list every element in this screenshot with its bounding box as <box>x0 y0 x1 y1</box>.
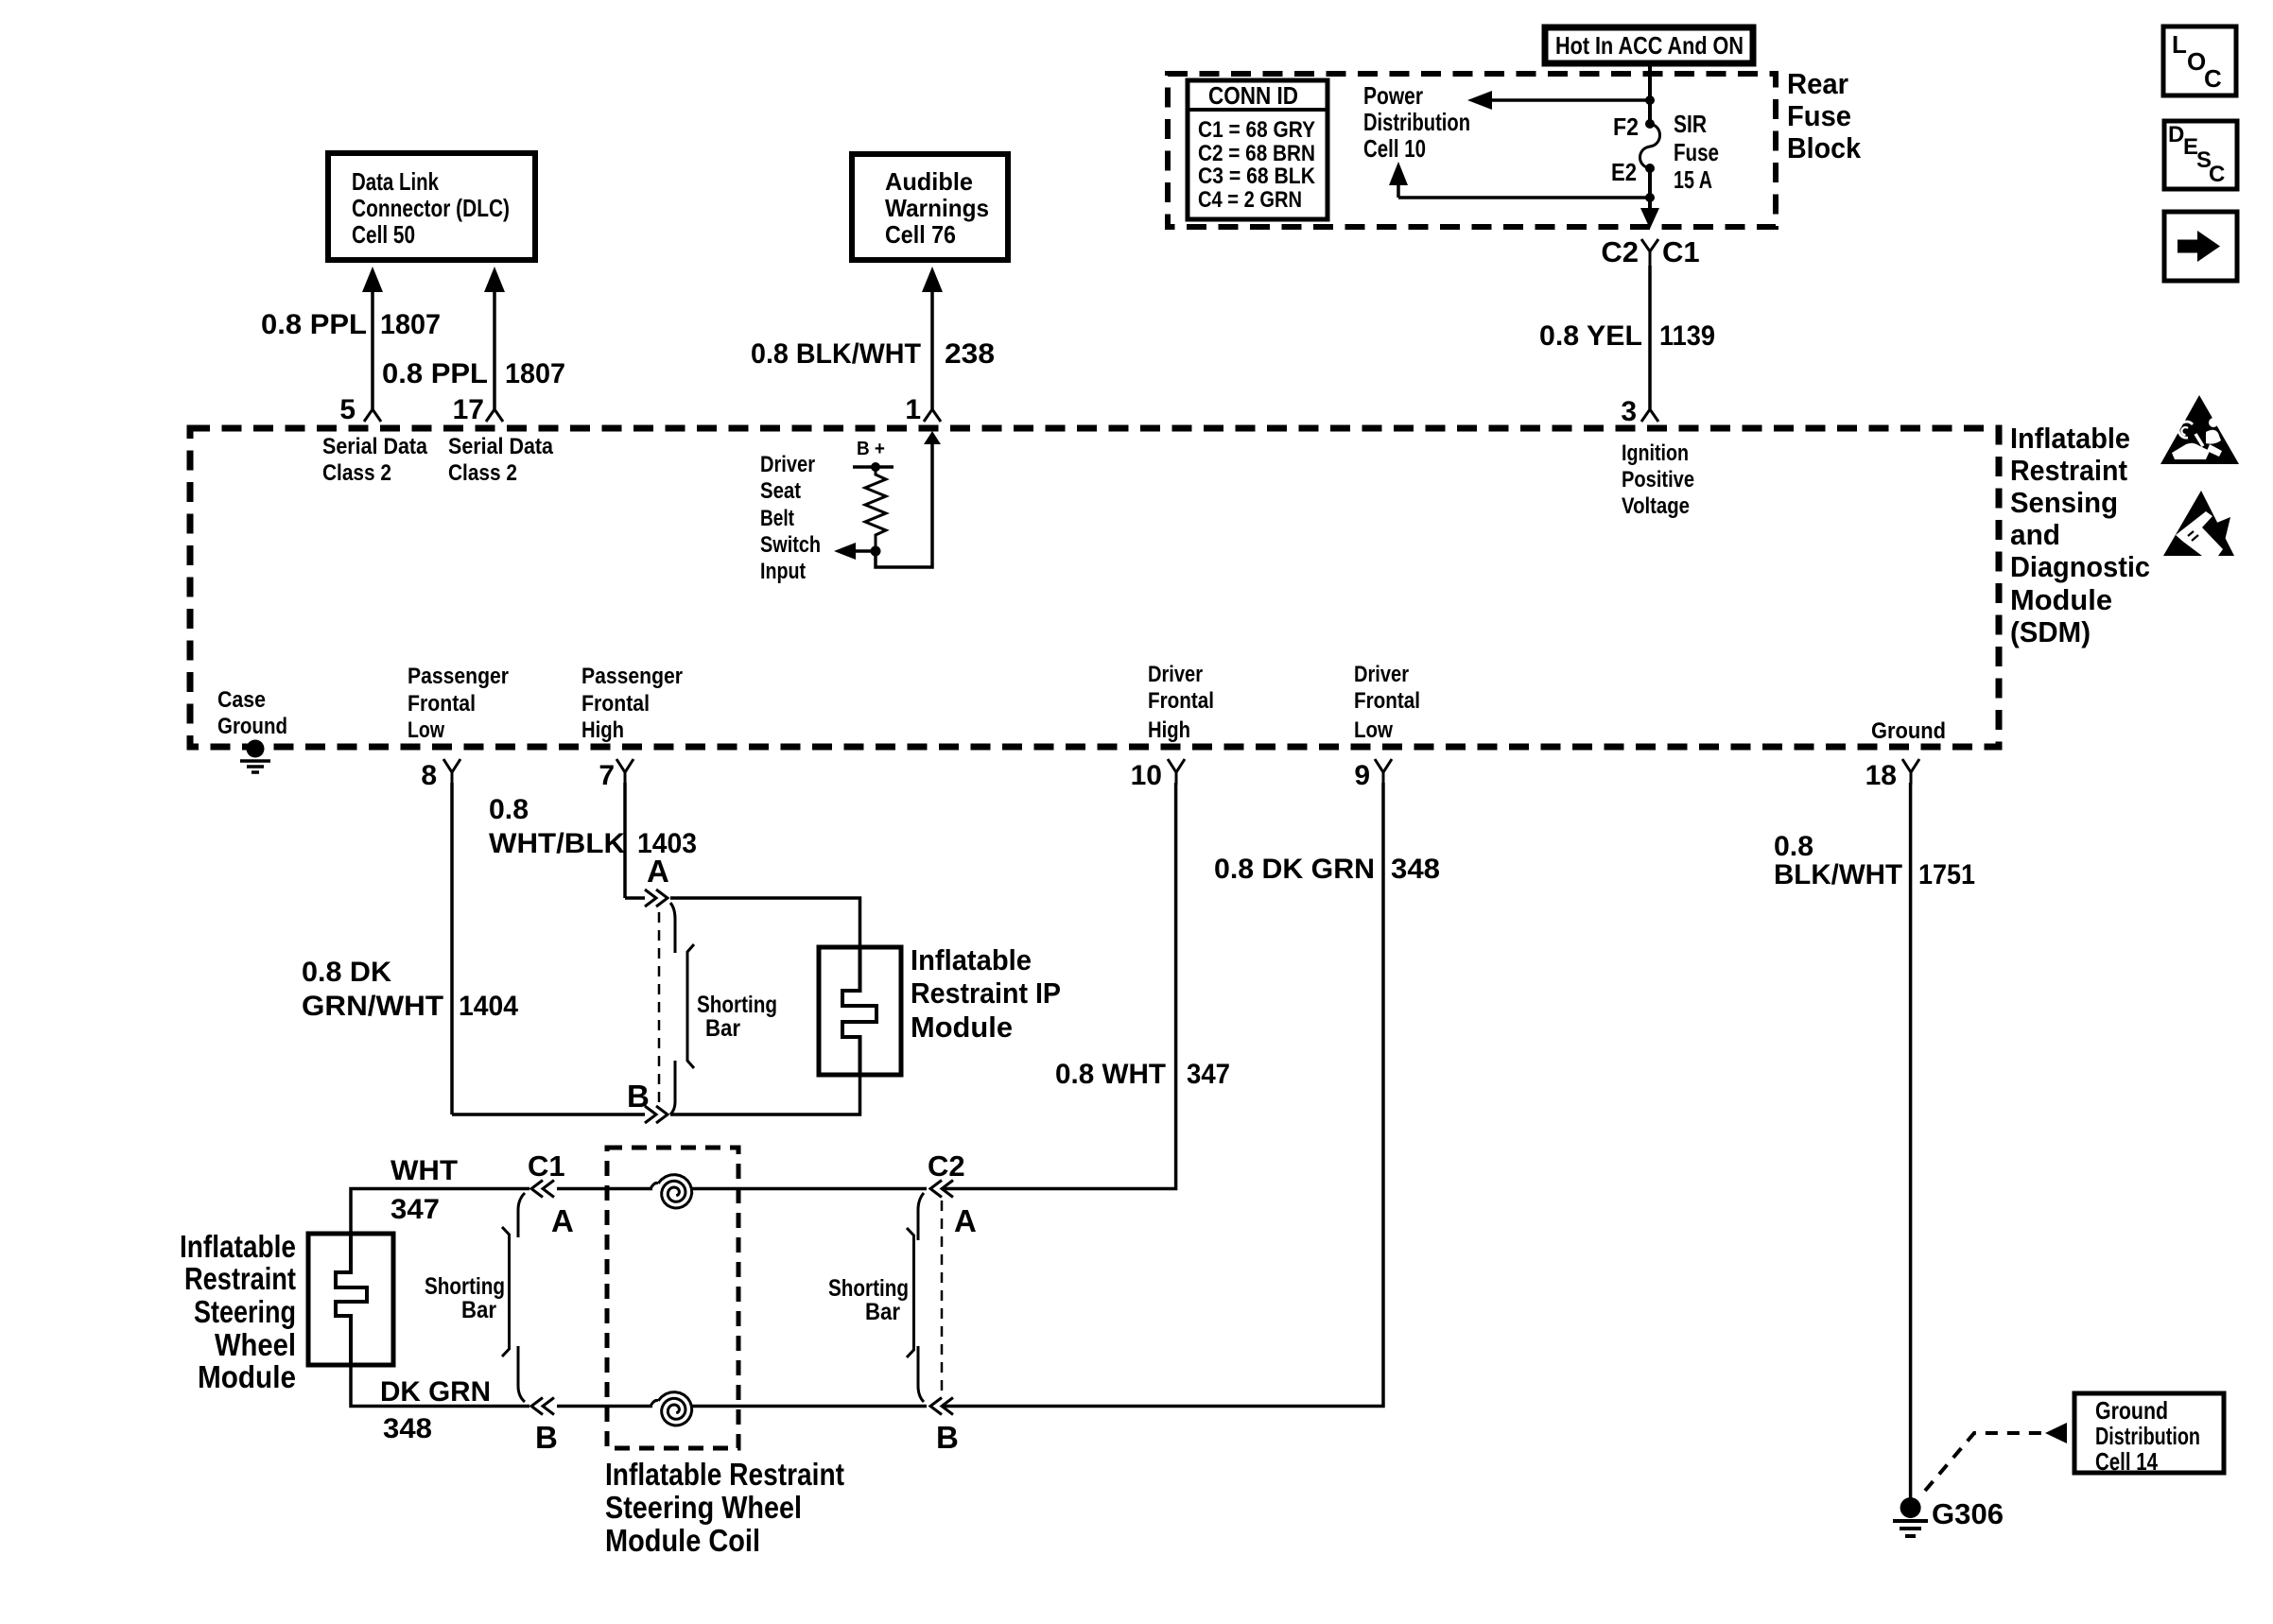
svg-text:348: 348 <box>383 1413 432 1444</box>
wire seat belt switch to pin 1 <box>876 431 941 567</box>
svg-text:18: 18 <box>1865 760 1897 791</box>
label Shorting Bar (IP) <box>697 992 777 1042</box>
wire hot feed from Hot In ACC box into fuse block <box>1645 63 1655 124</box>
pin 7 <box>599 759 633 791</box>
pin 5 <box>339 394 381 425</box>
junction dot seat belt switch output <box>871 546 881 557</box>
svg-text:WHT: WHT <box>390 1155 458 1186</box>
svg-text:Diagnostic: Diagnostic <box>2010 550 2150 583</box>
svg-text:Inflatable: Inflatable <box>180 1229 296 1264</box>
svg-text:1751: 1751 <box>1918 859 1975 890</box>
svg-text:Passenger: Passenger <box>581 664 683 689</box>
label Inflatable Restraint Sensing and Diagnostic Module (SDM) <box>2010 422 2150 648</box>
wire 0.8 YEL 1139 to pin 3 <box>1539 266 1715 409</box>
Hot In ACC And ON box <box>1545 27 1753 63</box>
svg-text:Connector (DLC): Connector (DLC) <box>352 194 510 222</box>
svg-text:347: 347 <box>390 1194 440 1225</box>
svg-text:GRN/WHT: GRN/WHT <box>302 991 443 1022</box>
svg-text:1807: 1807 <box>505 358 565 389</box>
svg-text:Low: Low <box>408 717 444 743</box>
Data Link Connector (DLC) box <box>328 153 535 260</box>
svg-text:Fuse: Fuse <box>1674 138 1719 166</box>
wire pin 9 driver frontal low down to C2-B <box>944 783 1383 1407</box>
ground G306 symbol <box>1893 1497 2004 1536</box>
svg-text:Belt: Belt <box>760 506 794 531</box>
label Passenger Frontal Low (pin 8) <box>408 664 509 743</box>
svg-text:SIR: SIR <box>1674 110 1707 138</box>
svg-text:Restraint IP: Restraint IP <box>911 976 1061 1010</box>
node B (IP module connector) <box>627 1079 650 1114</box>
label Inflatable Restraint Steering Wheel Module <box>180 1229 296 1394</box>
shorting bar dashed line (IP connector) <box>658 912 661 1110</box>
svg-text:and: and <box>2010 518 2060 551</box>
svg-text:Module: Module <box>2010 583 2112 616</box>
Ground Distribution Cell 14 box <box>2074 1393 2224 1476</box>
label Driver Frontal High (pin 10) <box>1148 662 1214 743</box>
shorting bar bracket (C2) <box>907 1228 914 1357</box>
svg-text:Wheel: Wheel <box>215 1327 296 1362</box>
resistor seat belt switch <box>865 467 886 546</box>
svg-text:Positive: Positive <box>1622 467 1694 492</box>
svg-text:E2: E2 <box>1611 158 1637 186</box>
svg-text:C2 = 68 BRN: C2 = 68 BRN <box>1198 141 1315 166</box>
connector B inline (chevrons) <box>645 1061 675 1123</box>
svg-text:10: 10 <box>1131 760 1162 791</box>
label Serial Data Class 2 (pin 5) <box>322 434 428 486</box>
svg-text:Passenger: Passenger <box>408 664 509 689</box>
svg-text:B: B <box>535 1420 558 1455</box>
label Rear Fuse Block <box>1787 67 1862 164</box>
pin 17 <box>453 394 503 425</box>
Inflatable Restraint Steering Wheel Module box <box>308 1234 393 1365</box>
pin 18 <box>1865 759 1919 791</box>
svg-text:238: 238 <box>945 338 995 370</box>
squib initiator (IP module) <box>842 947 876 1075</box>
svg-text:Serial Data: Serial Data <box>322 434 428 459</box>
pin 9 <box>1354 759 1392 791</box>
svg-text:1404: 1404 <box>459 991 518 1022</box>
svg-text:Serial Data: Serial Data <box>448 434 554 459</box>
svg-text:Warnings: Warnings <box>885 194 989 222</box>
squib initiator (steering wheel module) <box>336 1234 367 1365</box>
wire power distribution feed (lower, arrow up) <box>1389 162 1650 198</box>
coil L1 bottom spiral <box>651 1392 692 1425</box>
svg-text:Restraint: Restraint <box>184 1261 296 1296</box>
svg-text:WHT/BLK: WHT/BLK <box>489 828 625 859</box>
svg-text:Ground: Ground <box>2095 1396 2168 1425</box>
svg-text:Audible: Audible <box>885 167 973 196</box>
shorting bar dashed line (C2) <box>941 1201 944 1397</box>
svg-text:Driver: Driver <box>1148 662 1203 687</box>
label DK GRN 348 (steering wheel module bottom wire) <box>380 1376 491 1444</box>
label Serial Data Class 2 (pin 17) <box>448 434 554 486</box>
label 0.8 WHT/BLK 1403 <box>489 794 697 859</box>
Rear Fuse Block dashed box <box>1168 74 1776 227</box>
svg-text:Case: Case <box>217 687 266 713</box>
svg-text:0.8 YEL: 0.8 YEL <box>1539 320 1642 352</box>
label 0.8 PPL 1807 (pin 17 wire) <box>382 358 565 389</box>
svg-text:Module: Module <box>911 1011 1013 1044</box>
svg-text:A: A <box>954 1203 977 1238</box>
svg-text:Data Link: Data Link <box>352 167 439 196</box>
svg-text:Ground: Ground <box>217 714 287 739</box>
svg-text:C2: C2 <box>1601 235 1639 268</box>
svg-text:B: B <box>936 1420 959 1455</box>
label Shorting Bar (C1) <box>425 1273 505 1323</box>
label 0.8 DK GRN/WHT 1404 <box>302 957 518 1022</box>
svg-text:Hot In ACC And ON: Hot In ACC And ON <box>1555 31 1744 60</box>
connector C1-B inline (chevrons) <box>518 1346 554 1415</box>
svg-text:Module: Module <box>198 1359 296 1394</box>
label WHT 347 (steering wheel module top wire) <box>390 1155 458 1225</box>
label Power Distribution Cell 10 <box>1363 81 1470 163</box>
svg-text:Power: Power <box>1363 81 1423 110</box>
svg-text:Inflatable Restraint: Inflatable Restraint <box>605 1457 844 1492</box>
svg-text:Ignition: Ignition <box>1622 441 1689 466</box>
node B (C2) <box>936 1420 959 1455</box>
connector C2 label <box>928 1149 965 1183</box>
svg-text:G306: G306 <box>1932 1497 2004 1530</box>
svg-text:Cell 10: Cell 10 <box>1363 134 1426 163</box>
svg-text:C: C <box>2209 162 2225 187</box>
svg-text:Class 2: Class 2 <box>322 460 391 486</box>
svg-text:Frontal: Frontal <box>581 691 650 717</box>
svg-text:Driver: Driver <box>760 452 815 477</box>
svg-text:A: A <box>551 1203 574 1238</box>
wire pin 18 ground down to G306 <box>1909 783 1913 1498</box>
wire serial data pin 5 to DLC with arrow <box>362 267 383 409</box>
svg-text:Frontal: Frontal <box>408 691 476 717</box>
svg-text:High: High <box>581 717 624 743</box>
svg-text:F2: F2 <box>1613 112 1639 141</box>
svg-text:Module Coil: Module Coil <box>605 1523 760 1558</box>
node A (C2) <box>954 1203 977 1238</box>
label Driver Frontal Low (pin 9) <box>1354 662 1420 743</box>
label Inflatable Restraint Steering Wheel Module Coil <box>605 1457 844 1558</box>
connector C1-A inline (chevrons) <box>518 1181 554 1238</box>
svg-text:Shorting: Shorting <box>425 1273 505 1300</box>
wire steering wheel module top (WHT 347) <box>351 1189 927 1235</box>
label 0.8 WHT 347 (pin 10 wire) <box>1055 1059 1230 1090</box>
svg-text:17: 17 <box>453 394 484 425</box>
svg-text:BLK/WHT: BLK/WHT <box>1774 859 1902 890</box>
svg-text:3: 3 <box>1621 396 1637 427</box>
connector C1 label <box>528 1149 565 1183</box>
CONN ID table <box>1188 80 1327 219</box>
svg-text:Shorting: Shorting <box>828 1275 909 1302</box>
SDM module dashed box U1 <box>190 428 1999 747</box>
fuse SIR F2/E2 15 A <box>1611 110 1719 194</box>
svg-text:C1: C1 <box>528 1149 565 1183</box>
svg-text:B +: B + <box>857 439 885 459</box>
svg-text:1139: 1139 <box>1659 320 1715 352</box>
svg-text:A: A <box>647 854 669 889</box>
svg-text:1: 1 <box>905 394 921 425</box>
forward arrow reference box <box>2164 212 2237 281</box>
svg-text:C3 = 68 BLK: C3 = 68 BLK <box>1198 164 1316 189</box>
svg-text:0.8 DK: 0.8 DK <box>302 957 391 988</box>
label Shorting Bar (C2) <box>828 1275 909 1325</box>
node B+ <box>853 439 894 472</box>
svg-text:5: 5 <box>339 394 356 425</box>
svg-text:0.8 WHT: 0.8 WHT <box>1055 1059 1166 1090</box>
wire pin 7 to IP module (A) <box>625 898 860 947</box>
pin 3 <box>1621 396 1658 427</box>
connector C2 C1 at fuse block output <box>1601 235 1699 268</box>
svg-text:347: 347 <box>1187 1059 1230 1090</box>
wire steering wheel module bottom (DK GRN 348) <box>351 1365 927 1407</box>
svg-text:Frontal: Frontal <box>1148 688 1214 714</box>
svg-text:Block: Block <box>1787 131 1862 164</box>
svg-text:C1: C1 <box>1662 235 1700 268</box>
wire pin 8 to IP module (B) <box>452 1075 860 1114</box>
node B (C1) <box>535 1420 558 1455</box>
label Driver Seat Belt Switch Input <box>760 452 821 584</box>
svg-text:Fuse: Fuse <box>1787 99 1851 132</box>
svg-text:High: High <box>1148 717 1190 743</box>
label Ignition Positive Voltage <box>1622 441 1694 519</box>
svg-text:L: L <box>2172 30 2187 59</box>
svg-text:Distribution: Distribution <box>2095 1422 2200 1450</box>
svg-text:Cell 14: Cell 14 <box>2095 1447 2158 1476</box>
svg-text:Class 2: Class 2 <box>448 460 517 486</box>
connector C2-B inline (chevrons) <box>918 1346 953 1415</box>
svg-text:0.8 PPL: 0.8 PPL <box>382 358 488 389</box>
label 0.8 DK GRN 348 (pin 9 wire) <box>1214 854 1440 885</box>
svg-text:0.8 PPL: 0.8 PPL <box>261 309 367 340</box>
arrow seat belt switch input (left) <box>834 543 876 560</box>
steering wheel module coil dashed box <box>607 1148 738 1448</box>
svg-text:348: 348 <box>1391 854 1440 885</box>
svg-text:C1 = 68 GRY: C1 = 68 GRY <box>1198 117 1315 143</box>
Inflatable Restraint IP Module box <box>819 947 901 1075</box>
label 0.8 BLK/WHT 1751 (pin 18 wire) <box>1774 831 1975 890</box>
svg-text:0.8 BLK/WHT: 0.8 BLK/WHT <box>751 338 921 370</box>
svg-text:C4 = 2 GRN: C4 = 2 GRN <box>1198 187 1302 213</box>
svg-text:1807: 1807 <box>380 309 441 340</box>
label Case Ground <box>217 687 287 739</box>
wire pin 10 driver frontal high down to C2-A <box>944 783 1176 1189</box>
svg-text:C: C <box>2204 64 2222 93</box>
node A (C1) <box>551 1203 574 1238</box>
svg-text:Shorting: Shorting <box>697 992 777 1018</box>
svg-text:Distribution: Distribution <box>1363 108 1470 136</box>
svg-text:Low: Low <box>1354 717 1393 743</box>
pin 1 <box>905 394 941 425</box>
ESD warning triangle symbol <box>2163 491 2234 556</box>
SIR warning triangle symbol <box>2160 395 2239 464</box>
shorting bar bracket (C1) <box>502 1227 510 1356</box>
svg-text:Steering: Steering <box>194 1294 296 1329</box>
svg-text:Inflatable: Inflatable <box>2010 422 2130 455</box>
svg-text:Inflatable: Inflatable <box>911 943 1032 976</box>
svg-text:Seat: Seat <box>760 478 801 504</box>
dashed reference wire to Ground Distribution <box>1925 1423 2067 1491</box>
wire pin 7 passenger frontal high <box>623 783 627 898</box>
svg-text:Cell 50: Cell 50 <box>352 220 415 249</box>
coil L1 top spiral <box>651 1175 692 1208</box>
wire audible warnings pin 1 with arrow <box>922 267 943 409</box>
pin 8 <box>421 759 460 791</box>
Audible Warnings box <box>852 154 1008 260</box>
label Passenger Frontal High (pin 7) <box>581 664 683 743</box>
svg-text:15 A: 15 A <box>1674 165 1712 194</box>
svg-text:0.8: 0.8 <box>489 794 529 825</box>
svg-text:Frontal: Frontal <box>1354 688 1420 714</box>
svg-text:Input: Input <box>760 559 806 584</box>
svg-text:D: D <box>2168 122 2184 147</box>
label 0.8 PPL 1807 (pin 5 wire) <box>261 309 441 340</box>
svg-text:7: 7 <box>599 760 615 791</box>
label Ground (pin 18) <box>1871 718 1946 744</box>
svg-text:Restraint: Restraint <box>2010 454 2127 487</box>
node A (IP module connector) <box>647 854 669 889</box>
connector C2-A inline (chevrons) <box>918 1181 953 1241</box>
svg-text:Bar: Bar <box>865 1299 900 1325</box>
svg-text:Rear: Rear <box>1787 67 1848 100</box>
wire power distribution feed (upper, arrow left) <box>1467 91 1650 110</box>
svg-text:Steering Wheel: Steering Wheel <box>605 1490 802 1525</box>
svg-text:Bar: Bar <box>705 1015 740 1042</box>
label 0.8 BLK/WHT 238 (pin 1 wire) <box>751 338 995 370</box>
svg-text:DK GRN: DK GRN <box>380 1376 491 1408</box>
svg-text:9: 9 <box>1354 760 1370 791</box>
shorting bar bracket (IP) <box>687 944 694 1068</box>
svg-text:0.8: 0.8 <box>1774 831 1813 862</box>
svg-text:Sensing: Sensing <box>2010 486 2118 519</box>
svg-text:Driver: Driver <box>1354 662 1409 687</box>
LOC reference box <box>2163 26 2236 95</box>
svg-text:Cell 76: Cell 76 <box>885 220 956 249</box>
case ground symbol <box>240 740 270 773</box>
svg-text:Voltage: Voltage <box>1622 493 1690 519</box>
connector A inline (chevrons) <box>645 890 675 953</box>
svg-text:CONN ID: CONN ID <box>1208 81 1298 110</box>
DESC reference box <box>2164 121 2237 189</box>
svg-text:Ground: Ground <box>1871 718 1946 744</box>
wire serial data pin 17 to DLC with arrow <box>484 267 505 409</box>
label Inflatable Restraint IP Module <box>911 943 1061 1044</box>
svg-text:(SDM): (SDM) <box>2010 615 2091 648</box>
svg-text:8: 8 <box>421 760 437 791</box>
wire pin 8 passenger frontal low <box>450 783 454 1114</box>
wire fuse output <box>1640 168 1659 229</box>
pin 10 <box>1131 759 1185 791</box>
svg-text:0.8 DK GRN: 0.8 DK GRN <box>1214 854 1375 885</box>
svg-text:Bar: Bar <box>461 1297 496 1323</box>
svg-text:Switch: Switch <box>760 532 821 558</box>
svg-text:C2: C2 <box>928 1149 965 1183</box>
